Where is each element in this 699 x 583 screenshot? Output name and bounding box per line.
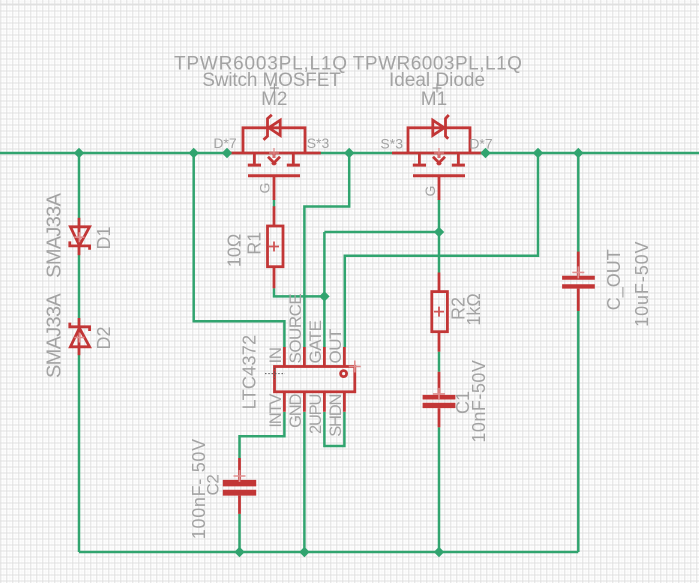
resistor R2 1k	[432, 273, 448, 352]
node rail/OUT	[533, 148, 543, 158]
svg-text:SHDN: SHDN	[327, 395, 345, 437]
node rail/IN	[188, 148, 198, 158]
svg-text:M1: M1	[421, 89, 447, 110]
wire C_OUT bottom to GND rail	[577, 311, 580, 552]
wire top rail VIN	[0, 152, 699, 155]
svg-text:LTC4372: LTC4372	[239, 335, 259, 410]
origin cross D1	[74, 232, 84, 242]
wire C2 bottom to GND rail	[238, 514, 241, 552]
svg-text:10Ω: 10Ω	[225, 234, 245, 267]
svg-text:OUT: OUT	[326, 329, 345, 364]
wire GATE net vertical	[323, 232, 326, 347]
svg-text:GND: GND	[287, 394, 305, 428]
capacitor C1 10nF-50V	[423, 372, 456, 428]
node GATE/R2	[434, 227, 444, 237]
pin IN	[283, 347, 286, 367]
svg-text:D*7: D*7	[213, 135, 237, 151]
origin cross D2	[74, 333, 84, 343]
wire C_OUT branch top	[577, 153, 580, 252]
capacitor C_OUT 10uF-50V	[562, 252, 595, 311]
node GATE/R1	[319, 291, 329, 301]
svg-text:S*3: S*3	[307, 135, 330, 151]
junction nodes (diamonds)	[74, 148, 584, 557]
svg-text:SMAJ33A: SMAJ33A	[44, 293, 66, 378]
wire INTVCC pin to C2	[240, 412, 285, 458]
svg-text:D1: D1	[94, 226, 114, 249]
svg-text:S*3: S*3	[380, 136, 403, 152]
pin SOURCE	[303, 347, 306, 367]
wire D1/D2 branch vertical	[78, 153, 81, 552]
wire M1 gate to R2 top	[438, 199, 441, 273]
svg-text:GATE: GATE	[306, 320, 325, 363]
svg-text:10nF-50V: 10nF-50V	[469, 360, 489, 443]
pin GATE	[323, 347, 326, 367]
pin OUT	[343, 347, 346, 367]
node rail/C_OUT	[573, 148, 583, 158]
node rail/M1 drain	[480, 148, 490, 158]
svg-text:SMAJ33A: SMAJ33A	[44, 192, 66, 277]
svg-text:10uF-50V: 10uF-50V	[632, 241, 652, 327]
wire bottom rail GND	[79, 551, 578, 554]
pin GND	[303, 392, 306, 412]
node rail/M2 drain	[222, 148, 232, 158]
transistor M2 (switch MOSFET, P-ch, horizontal)	[227, 115, 321, 200]
transistor M1 (ideal diode MOSFET, P-ch, horizontal, mirrored)	[392, 115, 486, 200]
node GND/C1	[434, 547, 444, 557]
pin SHDN	[343, 392, 346, 412]
svg-text:G: G	[422, 186, 438, 197]
diode D1 (SMAJ33A zener)	[70, 218, 90, 255]
wire R1 bottom to GATE junction	[274, 288, 324, 296]
node rail/SOURCE	[344, 148, 354, 158]
pin 2UPU	[323, 392, 326, 412]
node rail/D1	[74, 148, 84, 158]
wire M2 gate to R1 top	[273, 199, 276, 207]
svg-text:G: G	[257, 183, 273, 194]
wire SOURCE net: rail to IC SOURCE pin	[304, 153, 349, 347]
svg-text:IN: IN	[266, 348, 285, 364]
wire OUT net: IC OUT pin up and right to rail	[345, 153, 538, 347]
resistor R1 10 Ohm	[268, 206, 284, 288]
svg-text:C_OUT: C_OUT	[604, 249, 625, 310]
wire IN net: rail to IC IN pin	[194, 153, 285, 347]
svg-text:100nF- 50V: 100nF- 50V	[189, 438, 209, 539]
wire R2 bottom to C1 top	[438, 352, 441, 372]
node GND/IC	[299, 547, 309, 557]
svg-text:SOURCE: SOURCE	[286, 294, 305, 364]
origin cross M1 on wire	[434, 148, 444, 158]
op-amp U1 LTC4372 IC body	[275, 361, 361, 392]
wire GATE net horizontal to M1 gate column	[324, 231, 439, 234]
IC origin dotted cross	[265, 368, 285, 379]
gray origin cross M1	[433, 84, 442, 93]
svg-text:2UPU: 2UPU	[307, 395, 325, 434]
wire C1 bottom to GND rail	[438, 427, 441, 552]
diode D2 (SMAJ33A zener)	[70, 318, 90, 355]
capacitor C2 100nF-50V	[223, 458, 256, 514]
wire 2UPU-SHDN tie	[324, 412, 344, 446]
svg-text:D2: D2	[94, 326, 114, 349]
pin INTVCC	[283, 392, 286, 412]
node GND/C2	[234, 547, 244, 557]
svg-text:D*7: D*7	[469, 136, 493, 152]
gray origin cross M2	[270, 84, 279, 93]
svg-text:1kΩ: 1kΩ	[464, 293, 484, 325]
origin cross M2 on wire	[269, 148, 279, 158]
svg-text:INTV: INTV	[267, 394, 285, 428]
svg-text:R1: R1	[245, 232, 265, 255]
wire GND pin to GND rail	[303, 412, 306, 552]
IC OUT donut marker	[341, 371, 347, 377]
